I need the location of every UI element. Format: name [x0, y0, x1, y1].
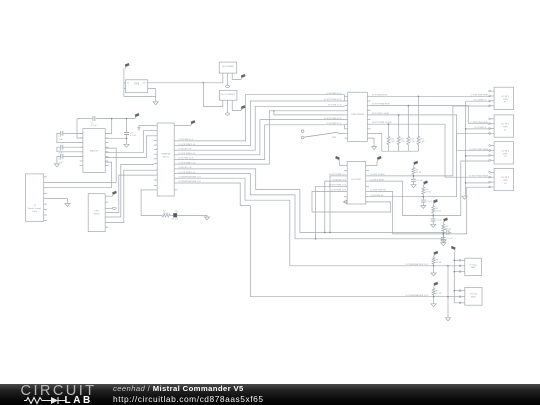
resistor snubber group 2: [422, 186, 424, 187]
wire driver out 2 high side: [371, 106, 491, 124]
wire driver out 3 high side: [371, 115, 491, 151]
svg-text:SEN1: SEN1: [471, 267, 476, 269]
capacitor C6 on MAX232 V+ to ground: [126, 119, 128, 133]
ground sensor return: [445, 318, 450, 321]
svg-text:1 kΩ: 1 kΩ: [401, 141, 406, 143]
svg-text:DC HT 4: DC HT 4: [501, 177, 510, 179]
wire regulator gnd pin to ground rail: [148, 89, 156, 102]
wire MCU row6 to driver pin4: [178, 111, 345, 164]
svg-text:328 U1: 328 U1: [162, 156, 170, 158]
wire U4 input A: [330, 176, 344, 233]
svg-text:MAX232: MAX232: [90, 150, 99, 153]
flag snubber group 1: [414, 164, 415, 166]
svg-text:IO HTR PWR2 HIGH: IO HTR PWR2 HIGH: [469, 149, 488, 151]
power flag VCC at regulator input: [125, 67, 126, 69]
svg-text:K2: K2: [504, 129, 506, 131]
flag thermistor pull-up 2: [434, 285, 435, 287]
svg-text:IO HTR PWM 2 LS: IO HTR PWM 2 LS: [324, 118, 342, 120]
earth symbol under ISO POWER: [226, 85, 230, 87]
resistor R8 thermistor 1: [433, 256, 435, 257]
flag ISO1 output: [241, 78, 242, 80]
wire U4 out C to relay 3 input: [369, 161, 491, 216]
wire IO HTR PWM 2 to driver: [178, 120, 345, 155]
pull-down resistor R14: [388, 124, 390, 136]
wire USB D- to MCU: [108, 164, 153, 217]
wire IO HTR PWM 3 staircase: [178, 169, 447, 233]
ground at DB9 shell: [65, 203, 70, 206]
svg-text:4.7 kΩ: 4.7 kΩ: [435, 210, 441, 212]
wire DB9 pin5 to ground: [47, 199, 67, 204]
svg-text:1 µF: 1 µF: [59, 139, 64, 141]
svg-text:IO TEMPERATURE 2 LS: IO TEMPERATURE 2 LS: [406, 294, 429, 297]
resistor snubber group 1: [413, 166, 415, 167]
flag VCC near microcontroller: [135, 117, 136, 119]
ground at C3: [54, 164, 59, 167]
svg-text:ISO POWER: ISO POWER: [222, 66, 235, 68]
ground thermistor 2: [431, 304, 436, 307]
svg-text:1 kΩ: 1 kΩ: [410, 141, 415, 143]
connector P1 USB module: [88, 194, 105, 232]
wire branch to ISO POWER 2: [203, 83, 222, 107]
svg-text:0.1 µF: 0.1 µF: [417, 180, 423, 182]
resistor R2 330 for LED: [162, 214, 170, 217]
svg-text:IO M PWM HIGH: IO M PWM HIGH: [372, 94, 388, 96]
svg-text:IO TEMPERATURE 1 LS: IO TEMPERATURE 1 LS: [406, 263, 429, 266]
ground at driver: [371, 147, 376, 150]
ground at regulator: [153, 102, 158, 105]
small ground at MCU reset: [137, 128, 141, 130]
LED D1: [170, 215, 173, 217]
svg-text:0.1 µF: 0.1 µF: [91, 125, 98, 127]
svg-text:IO M PWM 2 HIGH: IO M PWM 2 HIGH: [372, 113, 390, 115]
wire VCC rail above MAX232: [77, 118, 92, 120]
flag snubber group 4: [443, 221, 444, 223]
flag ISO2 output: [241, 109, 242, 111]
ground of aux filter: [443, 232, 445, 239]
svg-text:4.7 kΩ: 4.7 kΩ: [446, 229, 452, 231]
isolated supply module ISO POWER 2: [219, 90, 237, 100]
wire USB gnd to MCU: [108, 170, 153, 222]
pull-down resistor R11: [417, 96, 419, 136]
earth symbol under ISO POWER 2: [226, 113, 230, 115]
svg-text:4.7 kΩ: 4.7 kΩ: [436, 293, 442, 295]
svg-text:DC HT 2: DC HT 2: [501, 124, 510, 126]
svg-text:330 Ω: 330 Ω: [163, 213, 169, 215]
svg-text:D1 red: D1 red: [172, 218, 178, 220]
wire switch to driver enable: [337, 132, 345, 133]
svg-text:OUT: OUT: [142, 83, 146, 85]
ground snubber group 2: [421, 206, 426, 209]
isolated supply module ISO POWER: [219, 62, 237, 73]
module DC HT 1 output block: [494, 87, 513, 109]
module DC HT 2 output block: [494, 115, 513, 137]
svg-text:IO HTR PWM HIGH: IO HTR PWM HIGH: [470, 122, 488, 124]
flag thermistor pull-up 1: [434, 254, 435, 256]
capacitor snubber group 1: [413, 176, 415, 179]
svg-text:IO HTR PWM2 HIGH: IO HTR PWM2 HIGH: [469, 175, 488, 177]
svg-text:IO Temp: IO Temp: [470, 294, 477, 296]
ground snubber group 3: [431, 224, 436, 227]
IC U4 opto isolator: [347, 162, 366, 205]
svg-text:PWR: PWR: [503, 153, 508, 155]
svg-text:IO M DIR 2 LS: IO M DIR 2 LS: [333, 179, 347, 181]
wire IO TEMPERATURE 2 to sensor: [178, 183, 462, 297]
capacitor snubber group 4: [442, 234, 444, 237]
wire MAX232 TTL RX to MCU: [105, 136, 154, 158]
svg-text:4.7 kΩ: 4.7 kΩ: [436, 262, 442, 264]
ground snubber group 4: [441, 243, 446, 246]
IC U2 PWM driver: [348, 92, 368, 141]
filter capacitor C10 on aux line: [447, 230, 449, 235]
flag U4 right supply: [369, 161, 377, 165]
svg-text:0.1 µF: 0.1 µF: [447, 238, 453, 240]
wire U4 out D to relay 4 input: [369, 187, 491, 234]
wire regulator 5V output rail: [148, 75, 223, 83]
svg-text:ISO POWER 2: ISO POWER 2: [221, 94, 236, 96]
resistor snubber group 3: [432, 205, 434, 206]
input pair links at driver: [344, 95, 346, 101]
flag U4 left supply: [340, 161, 344, 165]
svg-text:IO M PWM 1 LS: IO M PWM 1 LS: [327, 93, 342, 95]
flag snubber group 2: [423, 184, 424, 186]
flag AREF at MCU: [178, 125, 191, 127]
svg-text:IO M PWM 2 LS: IO M PWM 2 LS: [327, 123, 342, 125]
capacitor snubber group 3: [432, 216, 434, 219]
wire U4 out B to relay 2 input: [369, 134, 491, 197]
capacitor C5 series on VCC rail: [93, 116, 95, 121]
svg-text:PWM DRIVER: PWM DRIVER: [351, 114, 365, 116]
capacitor C2 charge pump: [63, 146, 83, 148]
svg-text:IO Temp: IO Temp: [470, 264, 477, 266]
svg-text:1 kΩ: 1 kΩ: [420, 141, 425, 143]
svg-text:1 µF: 1 µF: [59, 162, 64, 164]
svg-text:HCPL2631: HCPL2631: [352, 179, 363, 181]
voltage regulator VR1 7805: [126, 80, 148, 93]
wire pull-down common rail: [382, 150, 419, 152]
wire MCU status pin to LED resistor: [141, 190, 162, 216]
ground of relay bus: [462, 196, 467, 199]
svg-text:7805: 7805: [134, 83, 140, 85]
capacitor snubber group 2: [422, 197, 424, 200]
svg-text:PWR: PWR: [503, 99, 508, 101]
wire VCC down to MAX232 pin: [77, 119, 83, 139]
svg-text:4.7 kΩ: 4.7 kΩ: [416, 172, 422, 174]
module DC HT 3 output block: [494, 142, 513, 164]
wire driver out 4 high side: [371, 124, 491, 177]
ground under C6: [124, 144, 129, 147]
connector J1 DB9 female: [26, 174, 44, 221]
svg-text:0.1 µF: 0.1 µF: [130, 135, 137, 137]
svg-text:DC HT 3: DC HT 3: [501, 151, 510, 153]
wire U4 out A to relay 1 input: [369, 106, 491, 176]
no-connect symbol on USB ID pin: [108, 207, 112, 209]
wire U4 input D loop: [312, 192, 391, 213]
svg-text:IO HTR PWM HIGH: IO HTR PWM HIGH: [372, 104, 390, 106]
wire to ground thermistor 1: [433, 266, 435, 273]
wire driver out 1 high side: [371, 95, 491, 97]
ground snubber group 1: [411, 185, 416, 188]
svg-text:IN: IN: [127, 83, 129, 85]
ground thermistor 1: [431, 273, 436, 276]
wire IO M DIR 2 staircase: [178, 174, 444, 239]
flag sensor supply: [454, 249, 455, 251]
svg-text:SEN2: SEN2: [471, 297, 476, 299]
svg-text:USB: USB: [95, 211, 100, 213]
resistor R9 thermistor 2: [433, 287, 435, 288]
sideways ground at U4 left bottom: [344, 201, 347, 203]
svg-text:IO HTR PWR HIGH: IO HTR PWR HIGH: [470, 94, 488, 96]
svg-text:PWR: PWR: [503, 180, 508, 182]
wire relay pin3 ground bus: [466, 100, 491, 102]
svg-text:J1: J1: [34, 205, 37, 207]
wire IO M PWM 2 to driver: [178, 125, 345, 160]
wire sensor return to ground: [447, 266, 449, 318]
relay bus taps: [466, 128, 491, 130]
wire MAX232 TTL TX to MCU: [105, 131, 154, 153]
wire IO M DIR 1 to driver: [178, 106, 345, 150]
wire LED to ground: [177, 216, 207, 217]
toggle switch SW1: [301, 130, 304, 133]
IC MAX232 U3: [83, 129, 105, 173]
svg-text:PWR: PWR: [503, 127, 508, 129]
wire MAX232 RS232 out to DB9 pin2: [47, 148, 116, 182]
svg-text:K4: K4: [504, 183, 506, 185]
svg-text:MINI-B: MINI-B: [94, 213, 100, 215]
capacitor C3 to ground: [63, 155, 83, 157]
svg-text:DC HT 1: DC HT 1: [501, 96, 510, 98]
resistor snubber group 4: [442, 223, 444, 224]
ground after LED: [204, 217, 209, 220]
wire MAX232 V+ to VCC rail: [105, 119, 112, 134]
flag snubber group 3: [433, 203, 434, 205]
svg-text:0.1 µF: 0.1 µF: [427, 201, 433, 203]
wire MAX232 RS232 in from DB9 pin3: [47, 162, 112, 188]
pull-down resistor R13: [398, 115, 400, 137]
wire regulator input from flag: [124, 68, 156, 96]
wire USB D+ to MCU: [108, 175, 153, 213]
wire U4 input C: [316, 186, 345, 239]
wire MAX232 pin2 to decoupling cap: [105, 137, 126, 139]
wire IO M PWM 1 to driver: [178, 95, 345, 141]
svg-text:IO HTR PWM 1 LS: IO HTR PWM 1 LS: [329, 185, 347, 187]
svg-text:4.7 kΩ: 4.7 kΩ: [426, 192, 432, 194]
wire sensor supply bus: [454, 252, 461, 303]
flag USB VBUS: [108, 195, 112, 197]
svg-text:Female Through: Female Through: [28, 208, 41, 210]
connector temperature sensor 1: [465, 258, 482, 275]
svg-text:SW1: SW1: [332, 137, 337, 139]
wire IO HTR PWM 1 to driver: [178, 101, 345, 146]
connector temperature sensor 2: [465, 287, 482, 305]
IC U1 ATMEGA microcontroller: [157, 123, 174, 196]
capacitor C1 charge pump: [63, 132, 83, 134]
svg-text:K1: K1: [504, 102, 506, 104]
wire driver gnd pin: [371, 138, 375, 146]
wire U4 input B: [325, 181, 344, 232]
svg-text:IO HTR PWM 3 LS: IO HTR PWM 3 LS: [329, 174, 347, 176]
wire driver pin5 tap: [274, 111, 345, 115]
wire MCU reset to small ground: [139, 126, 154, 128]
wire IO TEMPERATURE 1 to sensor: [178, 178, 462, 266]
svg-text:K3: K3: [504, 156, 506, 158]
svg-text:IO HTR PWM 1 LS: IO HTR PWM 1 LS: [324, 99, 342, 101]
wire to ground thermistor 2: [433, 297, 435, 304]
svg-text:IO M PWM 1 LS: IO M PWM 1 LS: [331, 190, 346, 192]
svg-text:IO M DIR 1 LS: IO M DIR 1 LS: [328, 105, 342, 107]
svg-text:0.1 µF: 0.1 µF: [436, 220, 442, 222]
module DC HT 4 output block: [494, 168, 513, 190]
svg-text:1 kΩ: 1 kΩ: [391, 141, 396, 143]
svg-text:Serial: Serial: [32, 211, 37, 213]
svg-text:ATMEGA: ATMEGA: [161, 153, 170, 156]
pull-down resistor R12: [407, 106, 409, 137]
